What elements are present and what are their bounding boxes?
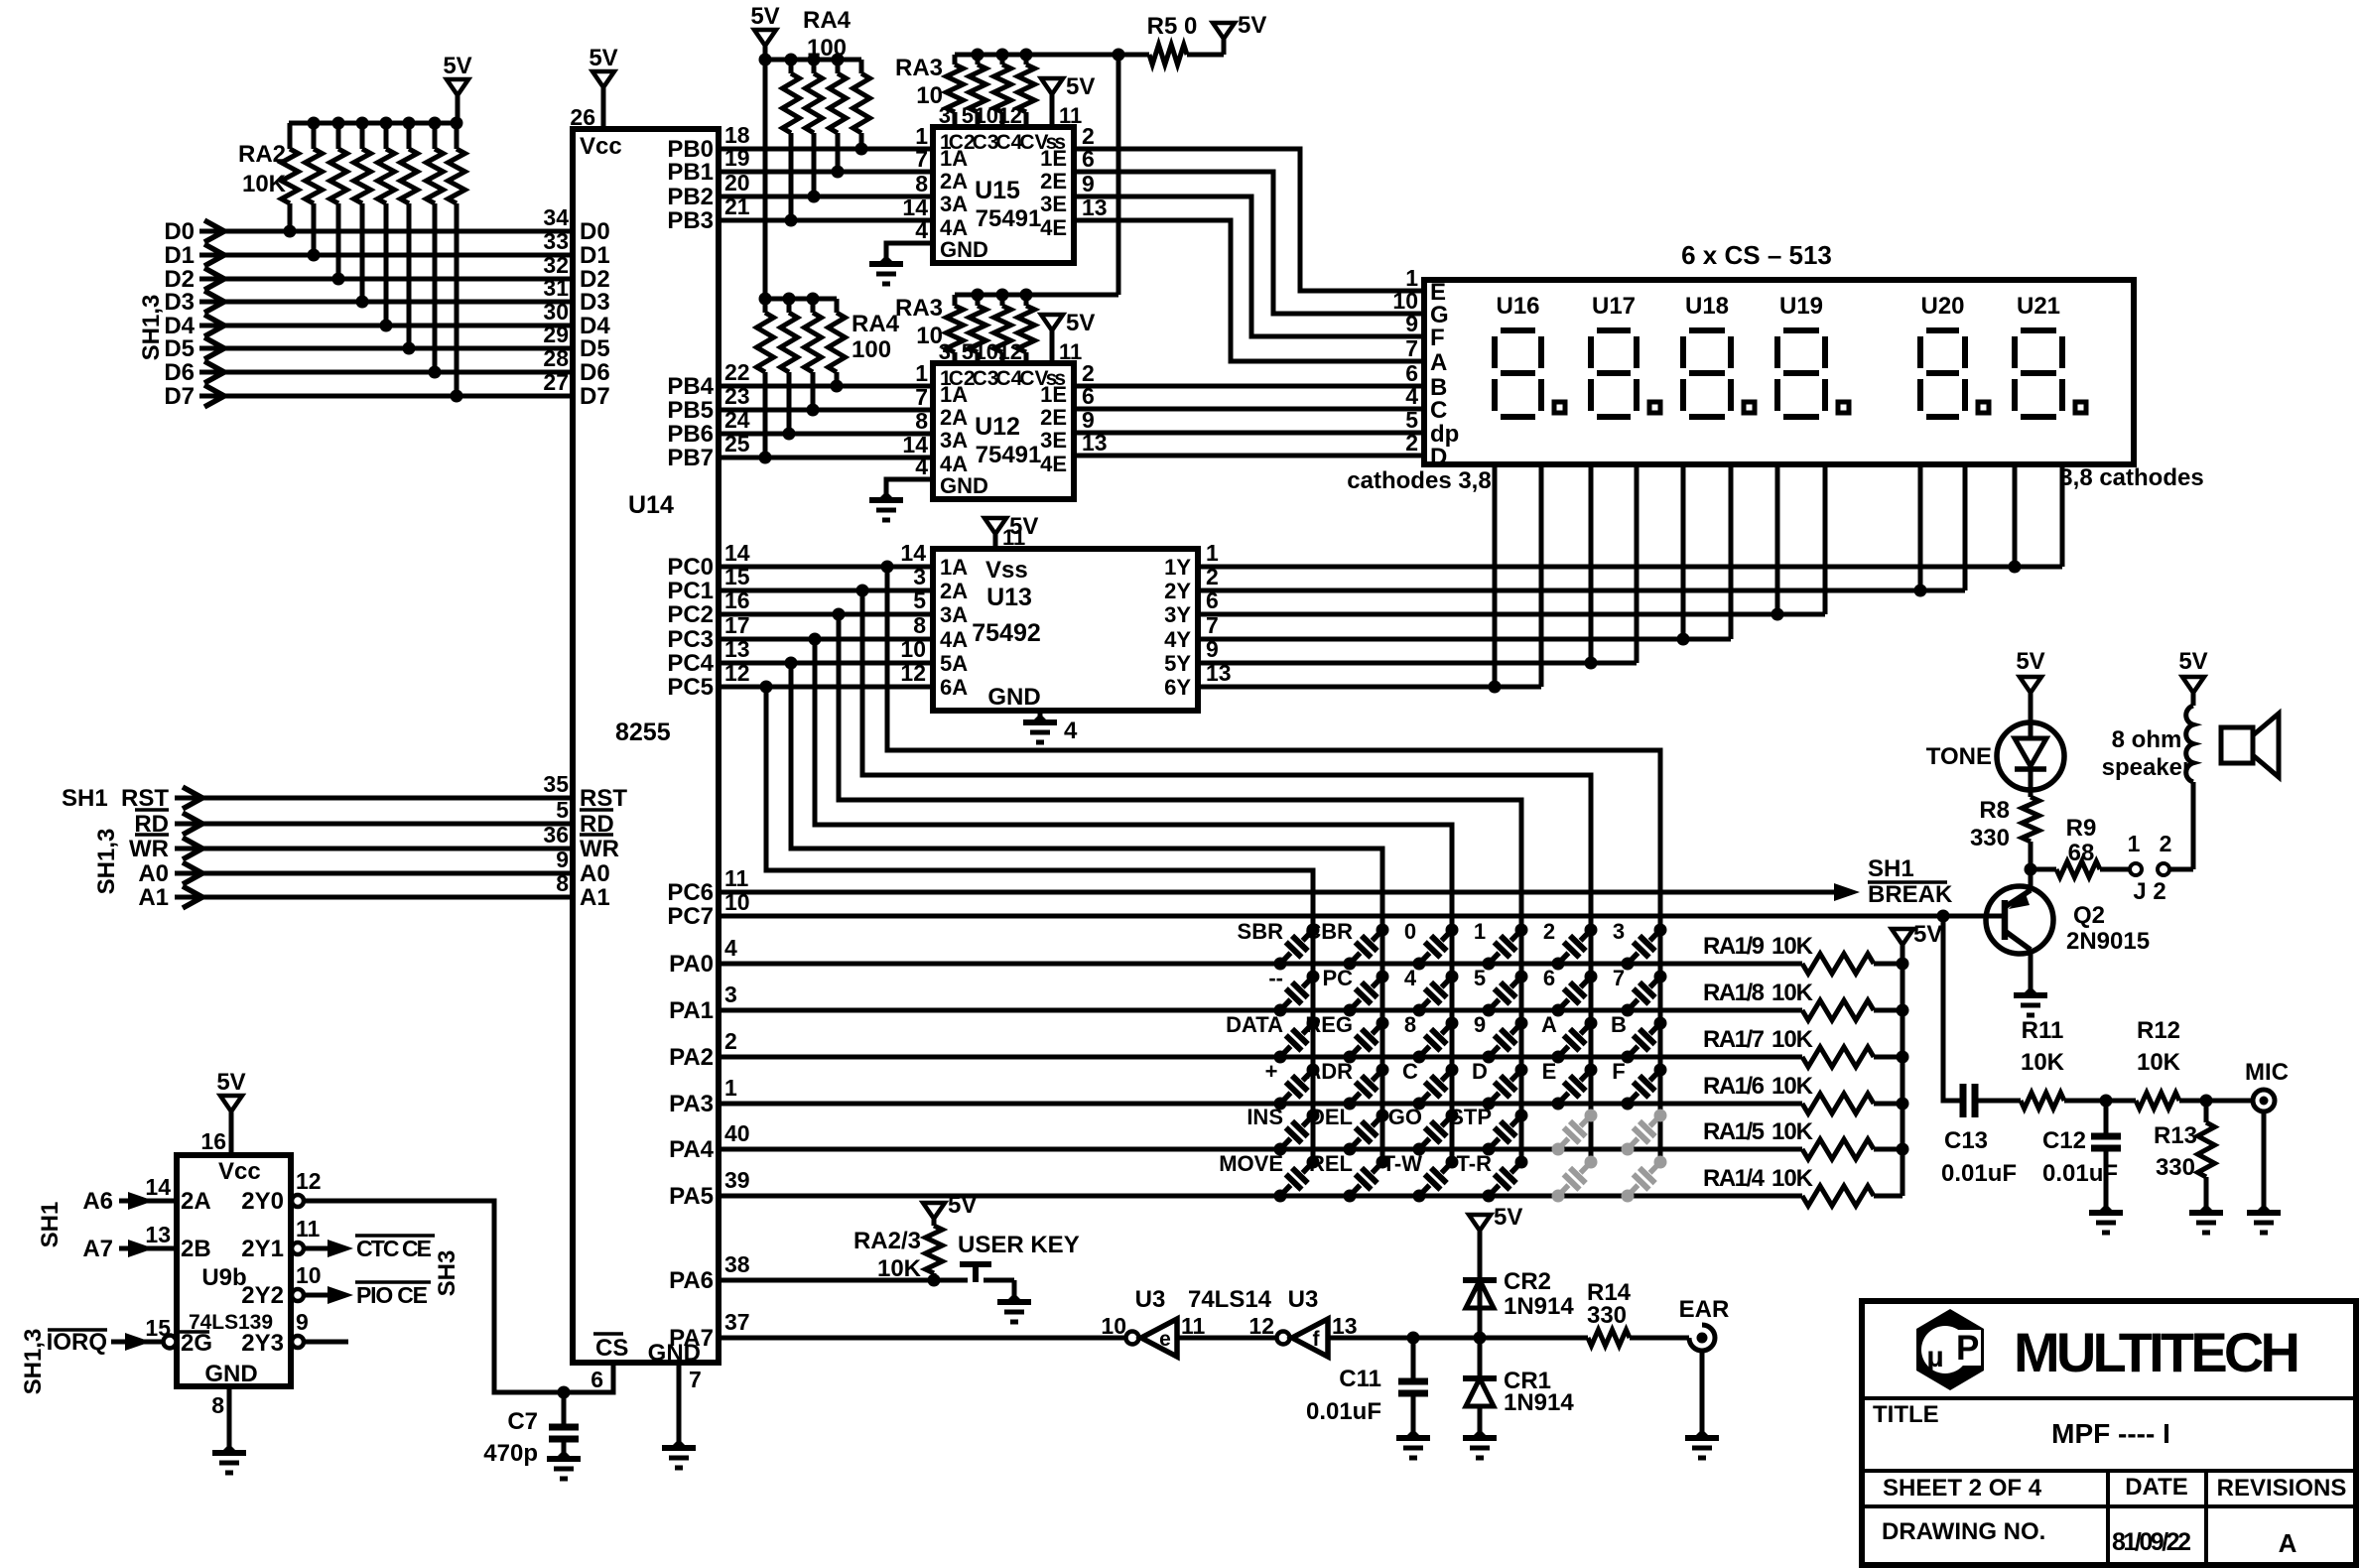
svg-text:RA1/5: RA1/5 [1703, 1118, 1765, 1145]
inductor speaker coil [2186, 706, 2193, 782]
svg-text:5V: 5V [216, 1069, 245, 1096]
svg-text:D0: D0 [580, 218, 610, 245]
wire U15 3E to segment F [1074, 196, 1424, 336]
capacitor C11 0.01uF [1411, 1338, 1416, 1381]
resistor network RA4 upper rail [765, 58, 861, 63]
svg-text:6: 6 [1543, 966, 1555, 990]
svg-text:R11: R11 [2022, 1017, 2064, 1044]
svg-text:2G: 2G [181, 1330, 212, 1357]
svg-text:SH1: SH1 [62, 785, 108, 812]
svg-text:74LS14: 74LS14 [1188, 1286, 1272, 1313]
resistor RA4 upper element 3 [836, 60, 841, 73]
svg-text:25: 25 [724, 431, 750, 457]
svg-text:D0: D0 [164, 218, 195, 245]
svg-text:2: 2 [1543, 919, 1555, 944]
svg-text:6: 6 [590, 1367, 603, 1392]
wire U15 4E to segment A [1074, 220, 1424, 361]
key switch row3 col4 9 [1483, 1051, 1496, 1064]
svg-text:4: 4 [724, 935, 737, 961]
node D2 input arrow [204, 268, 224, 290]
resistor RA2 element 8 [455, 123, 459, 149]
ground at U15 pin 4 [877, 255, 895, 264]
svg-text:2A: 2A [940, 169, 968, 194]
label SH1 at U9b [37, 1202, 64, 1248]
svg-text:MPF ---- I: MPF ---- I [2051, 1418, 2170, 1449]
junction R11 R12 C12 [2100, 1095, 2113, 1108]
U9b GND pin 8 ground [227, 1386, 232, 1453]
svg-text:CBR: CBR [1305, 919, 1353, 944]
wire PA0 keyboard row [719, 962, 1802, 967]
svg-text:D7: D7 [164, 383, 195, 410]
diode CR1 1N914 [1478, 1338, 1483, 1378]
svg-text:DATA: DATA [1226, 1012, 1283, 1037]
svg-text:1: 1 [1474, 919, 1486, 944]
svg-text:27: 27 [543, 369, 569, 395]
resistor RA4 upper element 1 [789, 60, 794, 73]
svg-text:PC4: PC4 [667, 650, 714, 677]
node RST input arrow [183, 787, 202, 809]
key switch row5 col3 GO [1413, 1143, 1426, 1156]
capacitor C12 0.01uF [2104, 1101, 2109, 1136]
svg-text:1: 1 [915, 360, 928, 386]
junction 5V bus row [1897, 1098, 1909, 1111]
svg-text:11: 11 [1002, 525, 1025, 550]
junction RA2-7 on D6 [429, 366, 442, 379]
wire D0 bus line [199, 229, 573, 234]
svg-text:37: 37 [724, 1309, 750, 1335]
key switch row6 col1 MOVE [1274, 1190, 1287, 1203]
svg-text:PC2: PC2 [667, 601, 714, 628]
svg-text:5Y: 5Y [1164, 651, 1191, 676]
svg-text:1A: 1A [940, 146, 968, 171]
svg-text:23: 23 [724, 383, 750, 409]
resistor RA1/5 [1802, 1139, 1874, 1159]
resistor R12 10K [2136, 1093, 2179, 1109]
wire U13 output pin 1 to digit cathodes [1198, 565, 2062, 570]
wire A1 control line [175, 895, 573, 900]
svg-text:5V: 5V [589, 45, 617, 71]
wire PC3 feed to key column 3 [815, 639, 1452, 1162]
svg-text:8: 8 [211, 1392, 224, 1418]
svg-text:1E: 1E [1040, 146, 1067, 171]
U9b output bubble 2Y1 [292, 1242, 304, 1254]
svg-text:34: 34 [543, 204, 569, 230]
power 5V bus for keyboard rows [1892, 929, 1913, 945]
svg-text:4: 4 [915, 454, 928, 479]
junction RA2-1 on D0 [284, 225, 297, 238]
key switch row6 col6 (ghost) [1622, 1190, 1635, 1203]
wire PA2 keyboard row [719, 1055, 1802, 1060]
junction PC2 tap [833, 608, 846, 621]
svg-text:13: 13 [145, 1222, 171, 1247]
svg-text:2A: 2A [181, 1188, 211, 1215]
svg-text:100: 100 [807, 35, 847, 62]
junction RA4 upper 4 [855, 143, 868, 156]
svg-text:13: 13 [1082, 430, 1108, 456]
svg-text:MIC: MIC [2245, 1059, 2289, 1086]
LED TONE indicator [1997, 722, 2064, 790]
resistor RA1/6 [1802, 1094, 1874, 1113]
svg-text:10K: 10K [1771, 1118, 1814, 1145]
svg-text:A: A [1430, 349, 1447, 376]
svg-text:11: 11 [296, 1216, 321, 1241]
svg-text:C12: C12 [2042, 1127, 2086, 1154]
capacitor C13 0.01uF [1960, 1084, 1967, 1117]
power 5V at U13 Vss pin 11 [984, 518, 1006, 534]
key switch row1 col1 SBR [1274, 958, 1287, 971]
svg-text:5: 5 [962, 339, 974, 364]
wire PC7 junction down to C13 [1943, 916, 1963, 1101]
svg-text:SH1,3: SH1,3 [93, 829, 120, 895]
ground at R13 [2197, 1204, 2215, 1213]
svg-text:11: 11 [1059, 339, 1082, 364]
svg-text:CTC CE: CTC CE [356, 1236, 432, 1261]
power 5V feeding RA4 networks [754, 30, 776, 46]
power 5V at U9b Vcc [220, 1096, 242, 1111]
wire U13 output pin 13 to digit cathodes [1198, 685, 1541, 690]
svg-text:RA1/8: RA1/8 [1703, 980, 1765, 1006]
svg-text:8: 8 [915, 171, 928, 196]
svg-text:470p: 470p [483, 1440, 538, 1467]
svg-text:4: 4 [1064, 718, 1078, 744]
svg-text:SH1,3: SH1,3 [138, 295, 165, 361]
svg-text:PB7: PB7 [667, 445, 714, 471]
key switch row3 col3 8 [1413, 1051, 1426, 1064]
svg-text:2Y: 2Y [1164, 579, 1191, 603]
power 5V above CR2 [1469, 1215, 1491, 1231]
key switch row6 col4 T-R [1483, 1190, 1496, 1203]
svg-text:6Y: 6Y [1164, 675, 1191, 700]
junction C7 node [558, 1386, 571, 1399]
svg-text:J 2: J 2 [2133, 878, 2165, 905]
ground at USER KEY [1005, 1293, 1023, 1302]
IC U14 8255 body [573, 129, 719, 1363]
junction PA6 RA2/3 [928, 1274, 941, 1287]
svg-text:7: 7 [1405, 335, 1418, 361]
junction R12 R13 [2200, 1095, 2213, 1108]
svg-text:DRAWING NO.: DRAWING NO. [1882, 1518, 2045, 1545]
wire U12 output to segment D [1074, 454, 1424, 458]
connector J2 pin 2 [2158, 863, 2169, 875]
title block frame [1862, 1301, 2356, 1565]
ground at C12 [2097, 1204, 2115, 1213]
resistor RA2 element 4 [360, 123, 365, 149]
svg-text:38: 38 [724, 1251, 750, 1277]
svg-text:21: 21 [724, 194, 750, 219]
svg-text:5V: 5V [443, 53, 471, 79]
svg-text:F: F [1612, 1059, 1625, 1084]
svg-text:68: 68 [2068, 840, 2095, 866]
svg-text:A: A [2279, 1528, 2297, 1558]
wire PB4 to U12 [719, 384, 933, 389]
resistor RA4 lower element 2 [787, 299, 792, 313]
node BREAK arrow [1834, 883, 1860, 901]
svg-text:12: 12 [1248, 1313, 1274, 1339]
svg-text:PB4: PB4 [667, 373, 714, 400]
wire D4 bus line [199, 324, 573, 328]
svg-text:75491: 75491 [976, 442, 1042, 468]
svg-text:U9b: U9b [201, 1264, 246, 1291]
resistor network RA2 10K rail [289, 121, 458, 126]
svg-text:6 x CS – 513: 6 x CS – 513 [1681, 240, 1832, 270]
wire PB7 to U12 [719, 456, 933, 460]
svg-text:16: 16 [200, 1128, 226, 1154]
U13 GND pin 4 ground [1038, 711, 1043, 722]
resistor RA3 upper element 1 [947, 65, 964, 112]
svg-text:13: 13 [724, 636, 750, 662]
key switch row1 col4 1 [1483, 958, 1496, 971]
junction 5V bus row [1897, 1004, 1909, 1017]
svg-text:PC7: PC7 [667, 903, 714, 930]
svg-text:1E: 1E [1040, 382, 1067, 407]
diode CR2 1N914 [1478, 1280, 1483, 1338]
svg-text:8: 8 [913, 612, 926, 638]
wire D2 bus line [199, 277, 573, 282]
power 5V at U14 Vcc [592, 71, 614, 87]
svg-text:10K: 10K [2021, 1049, 2065, 1076]
svg-text:7: 7 [1613, 966, 1625, 990]
wire PA7 row to inverter [719, 1336, 1131, 1341]
wire PC0 to U13 input [719, 565, 933, 570]
svg-text:RA4: RA4 [803, 7, 852, 34]
svg-text:PA3: PA3 [669, 1091, 714, 1117]
resistor R8 330 [2023, 797, 2039, 842]
ground at C7 [555, 1450, 573, 1459]
svg-text:10: 10 [900, 636, 926, 662]
svg-text:RA4: RA4 [852, 311, 900, 337]
svg-text:RA2: RA2 [238, 141, 286, 168]
junction RA4 lower 1 [759, 452, 772, 464]
resistor RA3 lower element 1 [947, 306, 964, 352]
resistor R9 68 [2031, 867, 2056, 872]
U9b output bubble 2Y0 [292, 1195, 304, 1207]
U9b pin 16 Vcc [229, 1111, 234, 1155]
svg-text:3E: 3E [1040, 428, 1067, 453]
resistor RA4 upper element 2 [812, 60, 817, 73]
svg-text:10: 10 [916, 323, 943, 349]
svg-text:3E: 3E [1040, 192, 1067, 216]
svg-text:100: 100 [852, 336, 891, 363]
svg-text:3: 3 [913, 564, 926, 589]
svg-text:D3: D3 [164, 289, 195, 316]
wire PB3 to U15 [719, 218, 933, 223]
svg-text:2Y0: 2Y0 [241, 1188, 284, 1215]
svg-text:D6: D6 [580, 359, 610, 386]
svg-text:0.01uF: 0.01uF [2042, 1160, 2118, 1187]
key switch row6 col2 REL [1344, 1190, 1357, 1203]
node D6 input arrow [204, 361, 224, 383]
svg-text:U13: U13 [986, 584, 1032, 611]
svg-text:7: 7 [689, 1367, 702, 1392]
svg-text:SBR: SBR [1238, 919, 1284, 944]
svg-text:C7: C7 [507, 1408, 538, 1435]
svg-text:3Y: 3Y [1164, 602, 1191, 627]
svg-text:20: 20 [724, 170, 750, 196]
svg-text:Vcc: Vcc [580, 133, 622, 160]
svg-text:14: 14 [724, 540, 750, 566]
wire PC5 to U13 input [719, 685, 933, 690]
wire PC4 to U13 input [719, 661, 933, 666]
wire PC1 feed to key column 5 [862, 590, 1591, 1162]
junction RA4 lower 2 [783, 428, 796, 441]
key switch row1 col2 CBR [1344, 958, 1357, 971]
resistor RA3 lower element 2 [970, 306, 986, 352]
decimal point of U18 [1744, 402, 1755, 413]
resistor RA4 lower element 3 [811, 299, 816, 313]
svg-text:75491: 75491 [976, 205, 1042, 232]
svg-text:STP: STP [1449, 1105, 1492, 1129]
svg-text:D3: D3 [580, 289, 610, 316]
label SH1,3 at IORQ [20, 1329, 47, 1395]
svg-text:12: 12 [296, 1168, 322, 1194]
svg-text:5: 5 [962, 103, 974, 128]
svg-text:33: 33 [543, 228, 569, 254]
key switch row2 col5 6 [1552, 1004, 1565, 1017]
resistor RA2/3 10K [932, 1219, 937, 1226]
wire PC4 feed to key column 2 [791, 663, 1382, 1162]
svg-text:U12: U12 [975, 413, 1020, 441]
junction PC7 to C13 [1937, 910, 1950, 923]
wire U15 2E to segment G [1074, 172, 1424, 314]
svg-text:1A: 1A [940, 555, 968, 580]
power 5V at U12 Vss pin 11 [1041, 315, 1063, 330]
svg-text:speaker: speaker [2102, 754, 2192, 781]
svg-text:Q2: Q2 [2073, 902, 2105, 929]
svg-text:10: 10 [916, 82, 943, 109]
resistor network RA3 lower rail [955, 293, 1118, 298]
svg-text:31: 31 [543, 275, 569, 301]
wire U13 output pin 2 to digit cathodes [1198, 588, 1965, 593]
key switch row4 col4 D [1483, 1098, 1496, 1111]
svg-text:330: 330 [2156, 1154, 2195, 1181]
svg-text:RA3: RA3 [895, 55, 943, 81]
wire PC3 to U13 input [719, 637, 933, 642]
svg-text:2: 2 [724, 1028, 737, 1054]
U9b output bubble 2Y3 [292, 1336, 304, 1348]
svg-text:9: 9 [556, 847, 569, 872]
svg-text:D6: D6 [164, 359, 195, 386]
svg-text:39: 39 [724, 1167, 750, 1193]
wire PA1 keyboard row [719, 1008, 1802, 1013]
svg-text:10K: 10K [2137, 1049, 2181, 1076]
svg-text:REG: REG [1305, 1012, 1353, 1037]
key switch row3 col1 DATA [1274, 1051, 1287, 1064]
svg-text:F: F [1430, 325, 1445, 351]
wire A7 input [119, 1246, 177, 1251]
svg-text:TONE: TONE [1926, 743, 1992, 770]
resistor RA3 lower element 4 [1018, 306, 1035, 352]
svg-text:SH1: SH1 [37, 1202, 64, 1248]
svg-text:C: C [1430, 397, 1447, 424]
decimal point of U17 [1649, 402, 1660, 413]
key switch row5 col6 (ghost) [1622, 1143, 1635, 1156]
resistor RA1/4 [1802, 1186, 1874, 1206]
svg-text:4: 4 [915, 217, 928, 243]
svg-text:PB5: PB5 [667, 397, 714, 424]
svg-text:DATE: DATE [2125, 1474, 2188, 1501]
wire PB6 to U12 [719, 432, 933, 437]
svg-text:D: D [1430, 444, 1447, 470]
svg-text:A0: A0 [138, 860, 169, 887]
node D4 input arrow [204, 315, 224, 336]
junction C11 [1407, 1332, 1420, 1345]
resistor RA3 upper element 4 [1018, 65, 1035, 112]
decimal point of U21 [2075, 402, 2086, 413]
svg-text:R5 0: R5 0 [1147, 13, 1198, 40]
svg-text:4A: 4A [940, 627, 968, 652]
svg-text:12: 12 [998, 339, 1022, 364]
key switch row2 col2 PC [1344, 1004, 1357, 1017]
svg-text:+: + [1265, 1059, 1278, 1084]
label SH3 [434, 1250, 460, 1297]
svg-text:A7: A7 [82, 1236, 113, 1262]
junction RA2-2 on D1 [308, 249, 321, 262]
svg-text:PC1: PC1 [667, 578, 714, 604]
wire PA5 keyboard row [719, 1194, 1802, 1199]
key switch row5 col4 STP [1483, 1143, 1496, 1156]
wire D1 bus line [199, 253, 573, 258]
node D5 input arrow [204, 337, 224, 359]
svg-text:8: 8 [915, 408, 928, 434]
svg-text:40: 40 [724, 1120, 750, 1146]
svg-text:PB3: PB3 [667, 207, 714, 234]
svg-text:D1: D1 [580, 242, 610, 269]
svg-text:cathodes 3,8: cathodes 3,8 [1347, 467, 1491, 494]
wire 2Y0 to U14 CS [304, 1201, 613, 1392]
power 5V above TONE LED [2020, 677, 2041, 693]
svg-text:13: 13 [1082, 195, 1108, 220]
svg-text:U21: U21 [2017, 293, 2060, 320]
svg-text:PC0: PC0 [667, 554, 714, 581]
power 5V at U15 Vss pin 11 [1041, 78, 1063, 94]
svg-text:U15: U15 [975, 177, 1020, 204]
wire U15 1E to segment E [1074, 149, 1424, 291]
resistor RA4 lower element 1 [763, 299, 768, 313]
svg-text:15: 15 [724, 564, 750, 589]
svg-text:RA1/9: RA1/9 [1703, 933, 1765, 960]
svg-text:10: 10 [975, 103, 998, 128]
svg-text:PA2: PA2 [669, 1044, 714, 1071]
svg-text:2Y1: 2Y1 [241, 1236, 284, 1262]
junction R8 R9 emitter [2025, 863, 2037, 876]
svg-text:0.01uF: 0.01uF [1941, 1160, 2017, 1187]
svg-text:11: 11 [724, 865, 749, 891]
node D3 input arrow [204, 291, 224, 313]
wire U12 output to segment C [1074, 407, 1424, 412]
svg-text:10: 10 [296, 1262, 322, 1288]
wire PB0 to U15 [719, 147, 933, 152]
svg-text:2E: 2E [1040, 169, 1067, 194]
key switch row6 col3 T-W [1413, 1190, 1426, 1203]
svg-text:4Y: 4Y [1164, 627, 1191, 652]
junction RA4 upper 1 [785, 214, 798, 227]
svg-text:RA1/4: RA1/4 [1703, 1165, 1766, 1192]
junction RA4 upper 2 [808, 191, 821, 203]
svg-text:12: 12 [998, 103, 1022, 128]
key switch row2 col1 -- [1274, 1004, 1287, 1017]
svg-text:14: 14 [900, 540, 926, 566]
resistor RA2 element 1 [288, 123, 293, 149]
svg-text:A: A [1541, 1012, 1557, 1037]
svg-text:PC5: PC5 [667, 674, 714, 701]
power 5V above speaker [2191, 693, 2196, 706]
svg-text:3A: 3A [940, 428, 968, 453]
key switch row4 col5 E [1552, 1098, 1565, 1111]
svg-text:0.01uF: 0.01uF [1306, 1398, 1381, 1425]
svg-text:10K: 10K [1771, 980, 1814, 1006]
node RD input arrow [183, 813, 202, 835]
svg-text:11: 11 [1059, 103, 1082, 128]
